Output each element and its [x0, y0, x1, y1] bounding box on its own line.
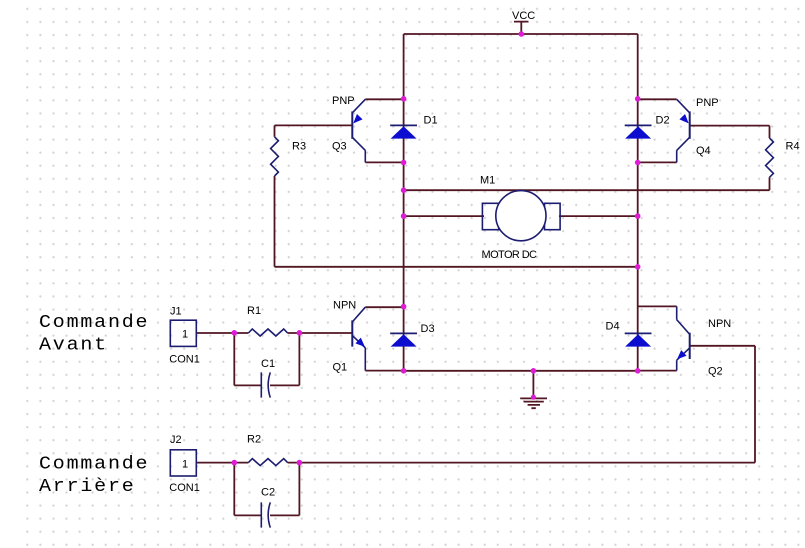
svg-text:MOTOR DC: MOTOR DC: [482, 249, 538, 261]
svg-text:J1: J1: [170, 306, 182, 318]
svg-text:C2: C2: [261, 487, 275, 499]
svg-text:CON1: CON1: [169, 353, 200, 365]
svg-text:Arrière: Arrière: [39, 476, 136, 497]
svg-text:R2: R2: [247, 434, 261, 446]
svg-text:1: 1: [182, 329, 188, 341]
svg-text:Q1: Q1: [333, 361, 348, 373]
svg-text:PNP: PNP: [696, 97, 719, 109]
svg-text:R3: R3: [292, 141, 306, 153]
svg-text:M1: M1: [480, 175, 495, 187]
svg-text:C1: C1: [261, 358, 275, 370]
svg-text:D4: D4: [606, 321, 620, 333]
svg-text:Q2: Q2: [708, 366, 723, 378]
svg-text:R1: R1: [247, 305, 261, 317]
svg-text:CON1: CON1: [169, 482, 200, 494]
svg-text:VCC: VCC: [512, 10, 535, 22]
svg-text:J2: J2: [170, 434, 182, 446]
svg-text:D2: D2: [656, 115, 670, 127]
svg-text:NPN: NPN: [333, 300, 356, 312]
svg-text:Q4: Q4: [696, 145, 711, 157]
svg-text:Commande: Commande: [39, 453, 149, 474]
svg-text:NPN: NPN: [708, 318, 731, 330]
svg-text:PNP: PNP: [332, 95, 355, 107]
svg-text:Q3: Q3: [332, 141, 347, 153]
svg-text:D3: D3: [421, 323, 435, 335]
svg-text:Commande: Commande: [39, 311, 149, 332]
svg-text:1: 1: [182, 458, 188, 470]
svg-text:R4: R4: [786, 140, 800, 152]
svg-text:Avant: Avant: [39, 334, 108, 355]
svg-text:D1: D1: [424, 115, 438, 127]
